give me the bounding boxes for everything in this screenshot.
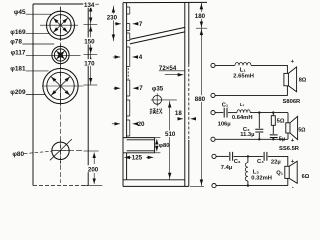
svg-text:11.3µ: 11.3µ	[240, 132, 254, 138]
svg-text:φ80: φ80	[159, 143, 170, 149]
svg-text:125: 125	[132, 155, 143, 162]
svg-text:7: 7	[139, 21, 143, 28]
svg-text:22µ: 22µ	[271, 159, 281, 165]
svg-text:7.4µ: 7.4µ	[221, 165, 232, 171]
svg-text:φ117: φ117	[11, 50, 26, 57]
svg-text:L₂: L₂	[240, 102, 245, 107]
svg-text:7: 7	[139, 85, 143, 92]
svg-text:φ45: φ45	[14, 9, 26, 16]
svg-text:18: 18	[175, 110, 182, 117]
svg-text:150: 150	[84, 39, 95, 46]
svg-text:230: 230	[107, 15, 118, 22]
svg-text:2.65mH: 2.65mH	[233, 73, 254, 79]
svg-text:C₃: C₃	[234, 159, 241, 165]
svg-text:φ169: φ169	[10, 29, 26, 36]
svg-text:Q₁: Q₁	[276, 171, 284, 177]
svg-text:φ80: φ80	[12, 151, 24, 158]
svg-text:C₁: C₁	[222, 102, 229, 108]
svg-text:880: 880	[195, 96, 206, 103]
svg-text:5µ: 5µ	[279, 136, 286, 142]
svg-text:SS6.5R: SS6.5R	[279, 146, 300, 152]
svg-text:6Ω: 6Ω	[302, 174, 310, 180]
svg-text:5Ω: 5Ω	[298, 128, 306, 134]
svg-text:C₄: C₄	[257, 159, 264, 165]
svg-text:φ209: φ209	[10, 89, 26, 96]
svg-text:φ78: φ78	[10, 39, 22, 46]
svg-text:0.64mH: 0.64mH	[232, 115, 253, 121]
svg-text:0.32mH: 0.32mH	[251, 175, 272, 181]
svg-text:-: -	[292, 185, 294, 190]
svg-text:72×54: 72×54	[159, 65, 177, 72]
svg-text:4: 4	[139, 54, 143, 61]
svg-text:φ35: φ35	[152, 85, 164, 92]
svg-text:200: 200	[88, 167, 99, 174]
svg-text:510: 510	[165, 131, 176, 138]
svg-text:S806R: S806R	[283, 99, 302, 105]
svg-text:φ181: φ181	[10, 66, 26, 73]
svg-text:134: 134	[84, 2, 95, 9]
svg-text:180: 180	[195, 13, 206, 20]
svg-text:8Ω: 8Ω	[299, 78, 307, 84]
svg-text:5Ω: 5Ω	[277, 119, 285, 125]
svg-text:106µ: 106µ	[218, 122, 231, 128]
svg-text:20: 20	[138, 121, 145, 128]
svg-text:170: 170	[84, 60, 95, 67]
